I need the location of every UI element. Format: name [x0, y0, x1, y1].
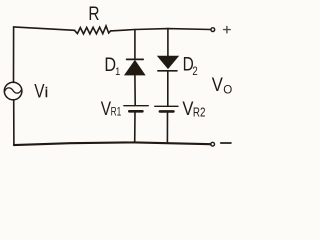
diode D1 cathode bar: [127, 58, 144, 60]
AC source Vi circle: [4, 82, 22, 100]
wire VR2 to bottom: [166, 112, 168, 143]
terminal circle - (bottom right): [211, 142, 215, 146]
battery VR2 long plate: [155, 105, 178, 107]
wire VR1 to bottom: [134, 112, 136, 143]
svg-text:i: i: [45, 85, 48, 101]
terminal circle + (top right): [211, 28, 215, 32]
svg-text:1: 1: [115, 67, 120, 79]
diode D1 triangle (pointing up): [125, 61, 145, 75]
wire left vertical upper (corner to AC source): [13, 27, 15, 83]
svg-text:V: V: [34, 80, 44, 102]
wire top-right horizontal (resistor to + terminal): [111, 29, 211, 31]
battery VR1 long plate: [124, 105, 148, 107]
battery VR2 short plate: [160, 110, 174, 113]
wire D2 to battery VR2: [167, 71, 169, 106]
wire bottom horizontal: [14, 142, 211, 145]
svg-text:R: R: [88, 2, 99, 24]
svg-text:V: V: [212, 72, 224, 95]
resistor R: [75, 26, 111, 34]
plus sign: [224, 26, 231, 33]
node A: junction wire down to diode D1: [134, 30, 136, 59]
diode D2 triangle (pointing down): [158, 56, 178, 68]
diode D2 anode bar: [158, 70, 177, 72]
wire left vertical lower (AC source to bottom wire): [13, 100, 15, 145]
svg-text:R1: R1: [111, 106, 122, 119]
svg-text:R2: R2: [193, 106, 206, 119]
svg-text:V: V: [101, 97, 111, 119]
svg-text:O: O: [223, 82, 232, 96]
battery VR1 short plate: [129, 110, 142, 113]
minus sign: [221, 142, 231, 144]
svg-text:2: 2: [192, 65, 197, 78]
node B: junction wire down to diode D2: [167, 29, 169, 56]
AC source sine wave: [5, 88, 21, 93]
wire top-left horizontal (source top to resistor): [14, 27, 75, 30]
wire D1 to battery VR1: [134, 75, 136, 105]
